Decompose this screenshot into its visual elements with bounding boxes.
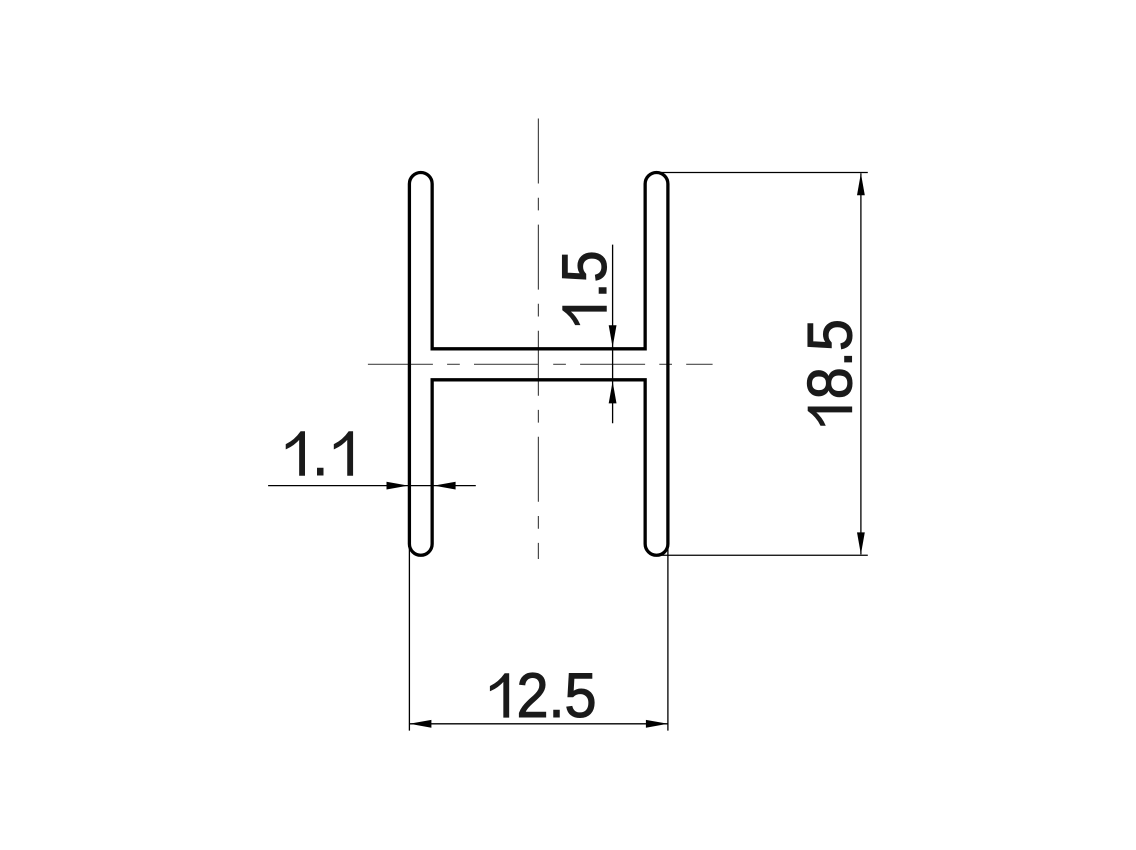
dim 12.5 line [409, 723, 668, 725]
dim 1.1 arrow left-pointing [434, 482, 456, 490]
dim 1.5 line [612, 245, 614, 424]
dim 1.1 text [286, 418, 352, 489]
vertical centerline [537, 119, 539, 560]
dim 18.5 line [860, 173, 862, 554]
horizontal centerline [368, 363, 713, 365]
dim 12.5 ext line right [667, 545, 669, 731]
dim 12.5 text [490, 660, 596, 731]
svg-text:2.5: 2.5 [516, 660, 596, 731]
dim 18.5 ext line top [659, 172, 868, 174]
dim 1.5 text [549, 250, 620, 324]
dim 12.5 arrow right [646, 720, 668, 728]
dim 18.5 ext line bottom [659, 554, 868, 556]
dim 18.5 arrow down [857, 532, 865, 554]
dim 1.1 arrow right-pointing [387, 482, 409, 490]
svg-text:.5: .5 [549, 250, 620, 298]
dim 18.5 arrow up [857, 173, 865, 195]
dim 1.5 arrow down [609, 325, 617, 347]
dim 1.5 arrow up [609, 381, 617, 403]
svg-text:8.5: 8.5 [794, 319, 865, 399]
H-profile outline [409, 173, 668, 556]
dim 12.5 ext line left [408, 545, 410, 731]
dim 18.5 text [794, 319, 865, 425]
dim 1.1 line [268, 485, 476, 487]
svg-text:.: . [312, 418, 328, 489]
dim 12.5 arrow left [409, 720, 431, 728]
